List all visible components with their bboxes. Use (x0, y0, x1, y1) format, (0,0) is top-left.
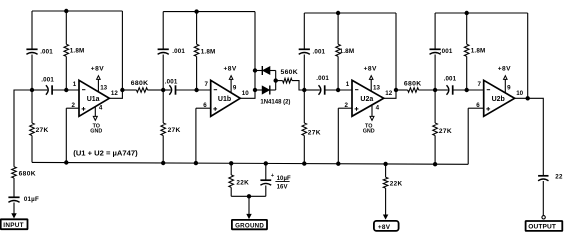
svg-text:+8V: +8V (378, 224, 391, 231)
svg-text:U1a: U1a (87, 96, 100, 103)
svg-text:27K: 27K (308, 129, 321, 136)
svg-text:1.8M: 1.8M (340, 48, 355, 55)
svg-text:22K: 22K (236, 180, 249, 187)
svg-text:680K: 680K (19, 171, 36, 178)
svg-text:27K: 27K (168, 127, 181, 134)
svg-text:13: 13 (373, 84, 380, 91)
svg-text:INPUT: INPUT (3, 222, 23, 229)
svg-text:U2a: U2a (360, 96, 373, 103)
svg-text:.001: .001 (440, 48, 453, 55)
svg-text:.001: .001 (165, 79, 178, 86)
svg-text:16V: 16V (277, 184, 288, 190)
svg-text:9: 9 (507, 84, 511, 91)
svg-text:.001: .001 (40, 48, 53, 55)
svg-text:+8V: +8V (364, 66, 377, 73)
svg-text:+: + (271, 173, 274, 179)
svg-text:560K: 560K (281, 69, 298, 76)
svg-text:27K: 27K (439, 128, 452, 135)
svg-text:22: 22 (555, 173, 563, 180)
svg-text:1: 1 (346, 81, 350, 88)
svg-text:.001: .001 (172, 48, 185, 55)
svg-text:+8V: +8V (91, 66, 104, 73)
svg-text:680K: 680K (131, 80, 149, 87)
svg-text:GND: GND (90, 129, 102, 135)
svg-text:U2b: U2b (492, 96, 505, 103)
svg-text:22K: 22K (390, 181, 403, 188)
svg-text:13: 13 (100, 84, 107, 91)
svg-text:U1b: U1b (218, 96, 231, 103)
svg-text:10: 10 (516, 90, 523, 97)
svg-text:12: 12 (111, 90, 118, 97)
svg-text:GROUND: GROUND (235, 222, 264, 229)
svg-text:12: 12 (385, 90, 392, 97)
svg-text:680K: 680K (404, 81, 422, 88)
svg-text:1.8M: 1.8M (471, 48, 486, 55)
svg-text:(U1 + U2 = µA747): (U1 + U2 = µA747) (73, 149, 138, 158)
svg-text:27K: 27K (36, 127, 49, 134)
svg-text:10µF: 10µF (277, 176, 291, 182)
svg-text:9: 9 (233, 84, 237, 91)
svg-text:+8V: +8V (224, 66, 237, 73)
svg-text:4: 4 (99, 105, 103, 112)
svg-text:.001: .001 (444, 76, 457, 83)
svg-text:7: 7 (477, 81, 481, 88)
svg-text:.001: .001 (316, 75, 329, 82)
svg-text:4: 4 (376, 105, 380, 112)
svg-text:OUTPUT: OUTPUT (528, 224, 556, 231)
svg-text:1N4148 (2): 1N4148 (2) (260, 99, 290, 105)
svg-text:.001: .001 (41, 76, 54, 83)
svg-text:1.8M: 1.8M (201, 49, 216, 56)
svg-text:01µF: 01µF (24, 196, 39, 203)
svg-text:1.8M: 1.8M (70, 47, 85, 54)
svg-text:.001: .001 (313, 49, 326, 56)
svg-text:1: 1 (73, 81, 77, 88)
svg-text:7: 7 (204, 81, 208, 88)
svg-text:GND: GND (363, 129, 375, 135)
svg-text:10: 10 (242, 90, 249, 97)
svg-text:+8V: +8V (498, 66, 511, 73)
